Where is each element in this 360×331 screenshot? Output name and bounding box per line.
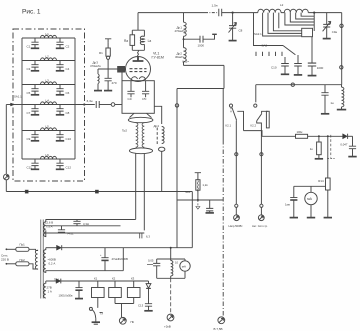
filter module dashed enclosure A1 bbox=[13, 29, 85, 181]
relay supply rail bbox=[61, 280, 149, 282]
capacitor С12 bbox=[56, 159, 71, 169]
svg-text:С9а: С9а bbox=[332, 30, 338, 34]
T-bar over fuse bbox=[195, 173, 201, 180]
svg-text:10: 10 bbox=[175, 260, 179, 264]
junction dot HV meter bbox=[170, 247, 172, 249]
ground under 1мк bbox=[290, 217, 298, 219]
node circle left lower bbox=[235, 204, 238, 207]
ground bar under С1 bbox=[31, 47, 39, 49]
ground bar under С2 bbox=[56, 47, 64, 49]
bus corner drop bbox=[191, 192, 193, 248]
grids (dashed) bbox=[130, 68, 147, 70]
ground bar under С5 bbox=[31, 94, 39, 96]
filament lead left down bbox=[135, 154, 137, 220]
node circle on R1 line bbox=[107, 56, 110, 59]
svg-text:L6: L6 bbox=[46, 153, 50, 157]
ground under С8 bbox=[229, 40, 237, 42]
feedthrough bullet 1 bbox=[340, 24, 343, 27]
main dropper rail (dash-dot lower) bbox=[222, 89, 224, 141]
ground under R14 bbox=[324, 217, 332, 219]
relay К2 bbox=[109, 276, 122, 297]
svg-text:К2.1: К2.1 bbox=[226, 124, 232, 128]
screen cross wire bbox=[177, 88, 224, 90]
svg-text:Пр1: Пр1 bbox=[20, 242, 26, 246]
capacitor С9 bbox=[27, 131, 39, 141]
svg-text:ПК: ПК bbox=[131, 320, 135, 324]
HV rail bbox=[62, 247, 193, 249]
К2.1 moving arm bbox=[232, 108, 237, 121]
Тр2 bottom ring bbox=[129, 148, 152, 154]
svg-text:С8: С8 bbox=[239, 29, 243, 33]
capacitor С10 bbox=[56, 131, 71, 141]
HV meter РА2 bbox=[180, 259, 190, 278]
svg-text:1мк: 1мк bbox=[285, 202, 291, 206]
Тр1 core bbox=[41, 220, 43, 299]
ground bar under С4 bbox=[56, 70, 64, 72]
filament supply lower wire bbox=[46, 232, 145, 234]
right rail of filter bbox=[74, 38, 76, 159]
filter row L2 wire bbox=[22, 60, 75, 62]
filter row L6 wire bbox=[22, 158, 75, 160]
svg-text:С9: С9 bbox=[27, 137, 31, 141]
screen feed drop bbox=[223, 65, 225, 88]
filament supply upper wire bbox=[46, 219, 136, 221]
svg-text:L4: L4 bbox=[46, 98, 50, 102]
cathode bypass box bbox=[122, 81, 154, 114]
svg-text:С3: С3 bbox=[27, 67, 31, 71]
svg-text:470: 470 bbox=[112, 81, 117, 85]
ground bar under С6 bbox=[56, 94, 64, 96]
meter shunt loop top bbox=[157, 258, 185, 260]
anode feed wire up bbox=[137, 13, 139, 31]
ground under С9а bbox=[323, 38, 331, 40]
capacitor С1 bbox=[27, 38, 39, 48]
wafer feed from anode rail bbox=[313, 12, 315, 32]
actuation arrow down bbox=[196, 200, 200, 209]
inductor L6 bbox=[41, 153, 57, 159]
svg-text:Нагр.500Вт: Нагр.500Вт bbox=[229, 224, 244, 228]
К2 К3 common lead bbox=[115, 298, 134, 304]
left rail of filter bbox=[21, 38, 23, 159]
lead to ПК terminal bbox=[121, 304, 123, 318]
ground bar under С12 bbox=[56, 168, 64, 170]
antenna bypass capacitor 1н bbox=[321, 85, 334, 114]
coupling capacitor 3,3н bbox=[87, 99, 112, 108]
К2.2 base route bbox=[257, 121, 262, 204]
capacitor С8 bbox=[56, 105, 69, 115]
svg-text:0,05: 0,05 bbox=[148, 259, 154, 263]
svg-text:3,3Н: 3,3Н bbox=[83, 222, 89, 226]
resistor 100к bbox=[296, 130, 308, 138]
wire R1 to grid bus bbox=[107, 59, 109, 69]
bus junction block X2 bbox=[95, 190, 98, 193]
junction dot fuse/wire bbox=[197, 199, 199, 201]
HV meter branch vertical bbox=[170, 248, 172, 259]
relay rectifier diode bbox=[46, 279, 61, 284]
svg-text:L2: L2 bbox=[46, 54, 50, 58]
resistor R1 bbox=[99, 43, 110, 57]
svg-text:30мкГн: 30мкГн bbox=[175, 55, 185, 59]
filament bypass capacitor a bbox=[73, 220, 89, 226]
dashed meter link bbox=[330, 135, 332, 158]
contact common bracket bbox=[244, 131, 263, 137]
HV rectifier diode bbox=[46, 245, 62, 250]
ground under Др5 bbox=[337, 109, 346, 111]
svg-text:L1: L1 bbox=[46, 32, 50, 36]
meter shunt loop bottom bbox=[157, 277, 185, 279]
svg-text:К2.2: К2.2 bbox=[251, 124, 257, 128]
relay contact К2.2 fixed circle bbox=[254, 104, 257, 107]
ground under electrolytic bbox=[75, 298, 83, 300]
ground bar under С7 bbox=[31, 114, 39, 116]
relay К3 bbox=[127, 276, 140, 297]
svg-text:Рис. 1: Рис. 1 bbox=[22, 9, 41, 16]
dashed link foot bbox=[327, 158, 334, 160]
svg-text:С12: С12 bbox=[66, 165, 72, 169]
svg-text:К2: К2 bbox=[112, 276, 116, 280]
svg-text:С4: С4 bbox=[66, 67, 70, 71]
svg-text:0,2 А: 0,2 А bbox=[49, 261, 56, 265]
input row wire exits filter left bbox=[6, 104, 22, 106]
detector feed wire bbox=[262, 135, 296, 137]
К2.1 output wire bbox=[235, 121, 237, 205]
svg-text:3,3н: 3,3н bbox=[87, 99, 93, 103]
shunt capacitor 0,05 bbox=[147, 259, 160, 279]
ground bar under С8 bbox=[56, 114, 64, 116]
ground under 1000 bbox=[308, 75, 317, 77]
ПК terminal bbox=[119, 317, 134, 324]
ground under bypass capacitor bbox=[206, 212, 214, 214]
bypass capacitor at relay feed bbox=[206, 200, 213, 213]
svg-text:6,3: 6,3 bbox=[146, 235, 150, 239]
capacitor С7 bbox=[27, 105, 39, 115]
tuning capacitor С9а bbox=[323, 13, 338, 39]
svg-text:мА: мА bbox=[307, 197, 312, 201]
load terminal connector bbox=[229, 215, 244, 228]
inductor L5 bbox=[41, 124, 57, 130]
filter row L3 wire bbox=[22, 84, 75, 86]
К2.2 moving arm bbox=[257, 114, 262, 121]
svg-text:Ант. Согл.тр.: Ант. Согл.тр. bbox=[252, 224, 268, 228]
svg-text:470мкГн: 470мкГн bbox=[90, 64, 101, 68]
svg-text:1,5н: 1,5н bbox=[212, 4, 218, 8]
detector wire after 100к bbox=[308, 135, 343, 137]
chassis bus wire y=191.5 bbox=[6, 191, 192, 193]
antenna terminal connector bbox=[252, 215, 268, 228]
funnel to filament transformer bbox=[130, 113, 152, 117]
capacitor С2 bbox=[56, 38, 69, 48]
svg-text:1000,0х50в: 1000,0х50в bbox=[59, 294, 74, 298]
input connector Вх bbox=[4, 174, 10, 180]
capacitor С5 bbox=[27, 85, 39, 95]
svg-text:Пр2: Пр2 bbox=[20, 258, 26, 262]
ground under 0,047 bbox=[348, 156, 356, 158]
blocking capacitor 1,5н bbox=[212, 4, 222, 17]
svg-text:В 7,5В: В 7,5В bbox=[214, 327, 223, 331]
shield stub from connector to chassis bus bbox=[5, 180, 7, 192]
wire to load terminal bbox=[235, 207, 237, 214]
padder capacitor С11 bbox=[294, 55, 302, 74]
Др4 core bead bbox=[159, 147, 165, 151]
ground under Др3 bbox=[94, 90, 102, 92]
capacitor С4 in box bbox=[127, 81, 134, 101]
fuse 1,2к bbox=[185, 180, 208, 200]
switch wafer box bbox=[302, 28, 313, 36]
transformer Тр1 primary winding bbox=[35, 250, 37, 269]
resistor Ra bbox=[124, 30, 135, 50]
capacitor С6 bbox=[56, 85, 69, 95]
svg-text:Н-21: Н-21 bbox=[68, 232, 75, 236]
resistor 1к to ground bbox=[310, 136, 321, 158]
anode lead with parasitic squiggle bbox=[137, 51, 140, 57]
input feed wire down bbox=[5, 105, 7, 175]
screen rail down left bbox=[176, 89, 178, 249]
top anode rail bbox=[138, 12, 205, 14]
svg-text:SA1.1: SA1.1 bbox=[14, 95, 22, 99]
contact housing rectangle bbox=[266, 111, 269, 128]
ground bar under С11 bbox=[31, 168, 39, 170]
capacitor С5 in box bbox=[142, 81, 149, 101]
ground under grid capacitor bbox=[104, 90, 112, 92]
node circle right output bbox=[260, 153, 263, 156]
filament lead right down bbox=[143, 154, 145, 231]
HV box right edge bbox=[122, 248, 124, 271]
tank inductor L2 bbox=[258, 3, 309, 13]
Др4 lead to chassis bus bbox=[161, 151, 163, 191]
loading capacitor 1000 bbox=[308, 37, 324, 75]
filament supply middle wire bbox=[46, 225, 121, 227]
svg-text:1000: 1000 bbox=[317, 66, 324, 70]
capacitor С11 bbox=[27, 159, 39, 169]
svg-text:220 В: 220 В bbox=[1, 257, 9, 261]
filament transformer Тр2 top ring bbox=[128, 117, 153, 122]
wire node to grid stopper drop bbox=[115, 104, 122, 106]
ground under 1к bbox=[315, 158, 323, 160]
bias choke Др4 (adjustable) bbox=[154, 124, 165, 144]
test point T-bar bbox=[105, 39, 111, 43]
drain choke Др5 bbox=[342, 85, 344, 110]
capacitor С13 bbox=[138, 303, 152, 310]
grid stopper drop wire bbox=[121, 73, 123, 105]
row4 wire exits filter right bbox=[75, 104, 95, 106]
ground under С10 bbox=[281, 73, 289, 75]
inductor L3 bbox=[41, 78, 57, 84]
К2.1 bracket bbox=[237, 111, 243, 130]
svg-text:1,2к: 1,2к bbox=[202, 183, 208, 187]
anode choke Др1 470мкГн bbox=[175, 13, 187, 40]
ground under 1н bbox=[321, 113, 329, 115]
junction dot 1к bbox=[318, 135, 320, 137]
relay К1 bbox=[92, 276, 105, 297]
ground under С13 bbox=[144, 310, 152, 312]
filament legs bbox=[134, 80, 144, 82]
HV terminal +2кВ bbox=[164, 314, 174, 328]
ground under TX switch bbox=[92, 319, 100, 325]
filter row L5 wire bbox=[22, 130, 75, 132]
svg-text:R14: R14 bbox=[318, 179, 324, 183]
ground under С11 bbox=[294, 74, 302, 76]
Тр1 secondary winding 12.6V bbox=[44, 219, 46, 236]
svg-text:R1: R1 bbox=[99, 51, 103, 55]
К2.2 bracket bbox=[262, 111, 268, 114]
feedthrough capacitor 1000 bbox=[184, 34, 217, 47]
wire to antenna terminal bbox=[260, 207, 262, 214]
svg-text:0,047: 0,047 bbox=[340, 142, 347, 146]
filament connector detail bbox=[140, 233, 142, 238]
Тр2 winding right bbox=[142, 123, 144, 148]
svg-text:С10: С10 bbox=[271, 66, 277, 70]
svg-text:Rа: Rа bbox=[124, 39, 128, 43]
feedthrough bullet 2 bbox=[340, 66, 343, 69]
svg-text:К3: К3 bbox=[131, 276, 135, 280]
relay feed wire y=200 bbox=[177, 199, 223, 201]
anode R/L block frame bbox=[132, 30, 144, 50]
junction arrow at dashed edge bbox=[11, 103, 15, 106]
variable capacitor С8 bbox=[229, 13, 243, 41]
svg-text:100к: 100к bbox=[297, 130, 304, 134]
meter junction dot bbox=[327, 135, 329, 137]
fuse Пр2 bbox=[6, 258, 35, 269]
heater arcs bbox=[131, 77, 137, 80]
grid capacitor 470 bbox=[105, 69, 117, 90]
antenna drop corner bbox=[341, 13, 343, 85]
К1 lead to TX switch bbox=[97, 298, 99, 308]
svg-text:1 А: 1 А bbox=[48, 289, 52, 293]
antenna cross wire bbox=[256, 84, 342, 86]
TX pedal switch bbox=[89, 307, 103, 319]
shunt resistor coil 10 bbox=[171, 259, 179, 278]
padder capacitor С10 bbox=[271, 57, 289, 74]
anode plate bbox=[133, 57, 144, 62]
svg-text:SA2: SA2 bbox=[262, 43, 268, 47]
HV output dashed drop bbox=[170, 278, 172, 314]
top rail after capacitor bbox=[222, 12, 342, 14]
vacuum tube VL1 ГУ-81М bbox=[126, 52, 164, 82]
svg-text:С13: С13 bbox=[138, 303, 144, 307]
filament terminal ≈7,5В bbox=[214, 317, 225, 331]
svg-text:С5т: С5т bbox=[142, 97, 147, 101]
bus junction block X1 bbox=[25, 190, 28, 193]
filament bypass capacitor b bbox=[58, 226, 74, 236]
К2.1 actuation dashes bbox=[230, 108, 232, 114]
capacitor 0,047 bbox=[340, 136, 356, 156]
screen choke Др2 30мкГн bbox=[175, 39, 186, 65]
inductor L2 bbox=[41, 54, 57, 60]
protection diode VD2 bbox=[146, 281, 151, 304]
switch contact comb SA2 bbox=[256, 43, 282, 56]
node circle on screen rail bbox=[175, 104, 178, 107]
screen feed wire right bbox=[184, 64, 225, 66]
mains terminal upper bbox=[6, 248, 8, 250]
svg-text:С4т: С4т bbox=[128, 97, 133, 101]
relay contact К2.1 fixed circle bbox=[229, 104, 232, 107]
svg-text:L5: L5 bbox=[46, 124, 50, 128]
HV filter capacitor 47мкФ bbox=[100, 248, 128, 271]
Тр1 secondary winding 27V bbox=[44, 281, 46, 298]
grid choke Др3 470мкГн bbox=[90, 61, 101, 91]
top rail dash-dot segment bbox=[205, 12, 218, 14]
diode VD1 bbox=[343, 134, 353, 139]
filter output node bbox=[83, 103, 85, 105]
filter row L4 wire bbox=[22, 104, 75, 106]
inductor La bbox=[140, 30, 151, 50]
svg-text:ГУ-81М: ГУ-81М bbox=[152, 56, 164, 60]
bias choke Др4 feed wire bbox=[154, 106, 161, 124]
Тр1 secondary winding HV bbox=[44, 248, 46, 273]
svg-text:С7: С7 bbox=[27, 111, 31, 115]
junction dot for C8 branch bbox=[232, 12, 234, 14]
electrolytic 1000,0x50В bbox=[59, 281, 83, 298]
svg-text:С5: С5 bbox=[27, 91, 31, 95]
ground bar under С10 bbox=[56, 140, 64, 142]
svg-text:1000: 1000 bbox=[198, 44, 205, 48]
Тр2 winding left bbox=[136, 123, 138, 148]
fuse Пр1 bbox=[6, 242, 35, 251]
L2 tap brackets group 1 bbox=[263, 13, 302, 36]
svg-text:Uс2≈: Uс2≈ bbox=[182, 60, 189, 64]
resistor R14 bbox=[318, 178, 330, 217]
meter bus wire bbox=[294, 185, 326, 187]
grid node circle bbox=[111, 103, 115, 107]
capacitor С4 bbox=[56, 61, 69, 71]
svg-text:1н: 1н bbox=[330, 101, 334, 105]
grid bus wire bbox=[98, 68, 118, 70]
svg-text:С2: С2 bbox=[66, 44, 70, 48]
filter row L1 wire bbox=[22, 37, 75, 39]
ground under РА1 bbox=[307, 217, 315, 219]
svg-text:С8: С8 bbox=[66, 111, 70, 115]
meter РА1 bbox=[305, 186, 317, 217]
ground bar under С9 bbox=[31, 140, 39, 142]
junction dot chokes bbox=[183, 38, 185, 40]
svg-text:L2: L2 bbox=[280, 3, 284, 7]
svg-text:К1: К1 bbox=[94, 276, 98, 280]
svg-text:ТХ: ТХ bbox=[100, 312, 104, 316]
grid stopper resistor R2 (hatched) bbox=[118, 66, 126, 72]
svg-text:С6: С6 bbox=[66, 91, 70, 95]
svg-text:L3: L3 bbox=[46, 78, 50, 82]
meter capacitor 1мк bbox=[285, 186, 297, 217]
svg-text:Тр2: Тр2 bbox=[122, 129, 127, 133]
svg-text:С10: С10 bbox=[66, 137, 72, 141]
ground bar under С3 bbox=[31, 70, 39, 72]
inductor L4 bbox=[41, 98, 57, 104]
svg-text:47мкФх600В: 47мкФх600В bbox=[112, 257, 128, 261]
tank output drop to switch rotor bbox=[254, 13, 284, 46]
svg-text:Др4: Др4 bbox=[154, 124, 160, 128]
node circle left output bbox=[235, 153, 238, 156]
svg-text:SA1: SA1 bbox=[185, 190, 191, 194]
meter dropper wire bbox=[327, 136, 329, 178]
antenna drop to relay contact bbox=[255, 85, 257, 103]
feedthrough bullet 3 bbox=[291, 83, 294, 86]
svg-text:+2кВ: +2кВ bbox=[164, 324, 171, 328]
capacitor С3 bbox=[27, 61, 39, 71]
node circle right lower bbox=[260, 204, 263, 207]
switch arm bbox=[283, 46, 295, 55]
HV box bottom wire bbox=[46, 270, 124, 272]
svg-text:7,5 А: 7,5 А bbox=[46, 224, 53, 228]
svg-text:SA2.1: SA2.1 bbox=[254, 32, 262, 36]
L2 tap brackets group 2 bbox=[279, 13, 314, 29]
svg-text:С1: С1 bbox=[27, 44, 31, 48]
svg-text:Lа: Lа bbox=[148, 39, 152, 43]
inductor L1 bbox=[41, 32, 57, 38]
mains terminal lower bbox=[6, 263, 8, 265]
